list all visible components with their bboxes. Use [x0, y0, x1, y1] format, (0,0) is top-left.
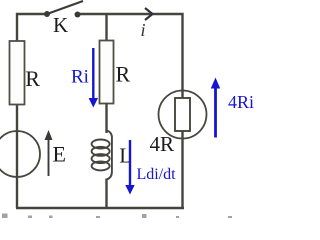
wire middle branch lower: [105, 179, 107, 209]
svg-text:R: R: [116, 62, 131, 87]
wire left branch: [16, 104, 18, 208]
wire top right segment: [79, 14, 183, 98]
wire top left segment: [17, 14, 45, 42]
E arrow: [48, 133, 50, 176]
switch K blade: [47, 1, 83, 14]
source E circle: [0, 131, 40, 177]
blue arrow 4Ri: [214, 84, 217, 138]
svg-text:E: E: [53, 142, 66, 167]
inductor L coil: [92, 131, 112, 180]
resistor R1 (left): [10, 41, 25, 105]
blue arrow Ri: [92, 48, 94, 101]
wire middle branch between R and L: [105, 103, 107, 133]
svg-text:Ri: Ri: [71, 67, 89, 88]
svg-text:K: K: [53, 13, 68, 37]
cut-off text remnants bottom edge: [2, 214, 232, 219]
wire bottom: [16, 207, 184, 209]
svg-text:Ldi/dt: Ldi/dt: [137, 166, 177, 183]
svg-text:4Ri: 4Ri: [228, 92, 254, 112]
wire middle branch upper: [105, 14, 107, 41]
wire right branch lower: [181, 131, 183, 208]
svg-text:4R: 4R: [150, 132, 175, 156]
blue arrow Ldi/dt: [129, 140, 131, 188]
svg-text:i: i: [141, 20, 146, 40]
switch K left contact: [44, 11, 50, 17]
4R internal rect: [175, 98, 190, 131]
resistor R2 (middle): [100, 41, 114, 104]
svg-text:R: R: [25, 66, 40, 91]
current arrow on top wire: [145, 8, 153, 20]
dependent source 4R circle: [159, 91, 207, 139]
switch K right contact: [75, 12, 81, 18]
